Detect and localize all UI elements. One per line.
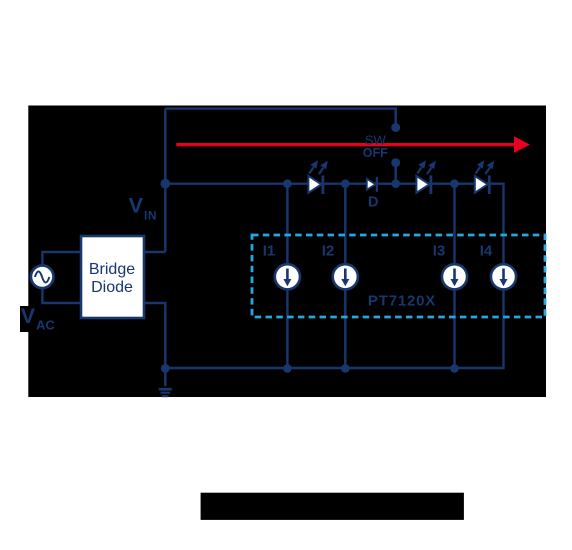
wire: branch I1: [286, 184, 288, 368]
current source I4: [491, 264, 516, 289]
node: LED row junction I1: [283, 179, 292, 188]
wire: AC source top to bridge input: [42, 252, 81, 268]
current source I1: [275, 264, 300, 289]
svg-text:I3: I3: [433, 243, 446, 260]
node: bottom rail junction I2: [341, 364, 350, 373]
node: VIN junction: [161, 179, 171, 189]
svg-text:Bridge: Bridge: [89, 261, 135, 278]
node: switch lower terminal dot: [391, 158, 400, 167]
wire: LED string row, right drop and bottom return rail: [165, 184, 503, 368]
LED D3: [475, 160, 494, 194]
node: LED row junction I3: [450, 179, 459, 188]
svg-text:V: V: [21, 304, 36, 328]
schematic panel background: [28, 106, 546, 398]
LED D2: [416, 160, 435, 194]
svg-text:I4: I4: [480, 243, 493, 260]
wire: bridge output top to VIN rail: [144, 251, 165, 253]
svg-text:IN: IN: [144, 208, 157, 222]
current source I3: [442, 264, 467, 289]
node VIN label: [129, 193, 157, 222]
node: bottom rail junction I3: [450, 364, 459, 373]
diode D: [367, 177, 378, 192]
bridge rectifier U1 "Bridge Diode": [81, 236, 144, 318]
ground: [159, 368, 172, 397]
LED D1: [308, 160, 327, 194]
wire: branch I3: [453, 184, 455, 368]
node: switch upper terminal dot: [391, 123, 400, 132]
node: LED row junction switch: [391, 179, 400, 188]
wire: branch I2: [344, 184, 346, 368]
node: bottom rail junction I1: [283, 364, 292, 373]
wire: top rail to switch upper terminal: [165, 109, 395, 124]
node: bottom rail junction ground: [161, 364, 170, 373]
node VAC label backing: [20, 306, 40, 332]
svg-text:OFF: OFF: [363, 146, 388, 160]
svg-text:PT7120X: PT7120X: [368, 293, 436, 310]
current source I2: [333, 264, 358, 289]
svg-text:D: D: [368, 195, 378, 211]
svg-text:AC: AC: [36, 317, 55, 332]
wire: VIN vertical riser: [164, 109, 166, 252]
wire: bridge output bottom to ground rail: [144, 303, 165, 368]
svg-text:I2: I2: [322, 243, 335, 260]
IC PT7120X boundary (dashed): [252, 235, 545, 317]
node VAC label: [21, 304, 56, 332]
svg-text:I1: I1: [263, 243, 276, 260]
red current-path arrow: [176, 136, 530, 153]
svg-text:Diode: Diode: [91, 279, 133, 296]
node: LED row junction I2: [341, 179, 350, 188]
AC source V1: [31, 266, 54, 289]
caption bar: [201, 493, 464, 520]
wire: AC source bottom to bridge input: [42, 286, 81, 303]
svg-text:V: V: [129, 193, 144, 217]
wire: switch lower terminal to LED row: [395, 163, 397, 184]
